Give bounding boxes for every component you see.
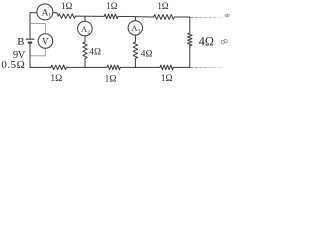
ammeter A1 bbox=[37, 4, 53, 20]
svg-text:1Ω: 1Ω bbox=[106, 1, 118, 11]
wire right shunt to bottom rail bbox=[189, 46, 191, 68]
wire R5 to bottom rail bbox=[134, 59, 136, 68]
wire left branch above battery bbox=[29, 13, 31, 39]
svg-text:1Ω: 1Ω bbox=[50, 73, 62, 83]
svg-text:1Ω: 1Ω bbox=[61, 1, 73, 11]
battery B positive plate bbox=[26, 38, 35, 40]
wire top-left corner to ammeter A1 bbox=[30, 12, 37, 14]
wire bottom rail segment 2 bbox=[67, 66, 108, 68]
wire A2 to 4ohm shunt R4 bbox=[84, 36, 86, 42]
resistor R8 1ohm (bottom) bbox=[160, 65, 173, 70]
wire node a down to ammeter A2 bbox=[84, 16, 86, 21]
resistor R9 4ohm (right shunt) bbox=[188, 33, 192, 46]
ammeter A3 bbox=[128, 21, 142, 35]
svg-text:0.5Ω: 0.5Ω bbox=[1, 59, 25, 71]
battery B negative plate bbox=[28, 42, 32, 44]
infinity symbol top right bbox=[225, 14, 229, 17]
wire bottom rail segment 3 bbox=[120, 66, 160, 68]
svg-text:1Ω: 1Ω bbox=[161, 73, 173, 83]
wire R3 to top-right corner bbox=[174, 16, 190, 18]
svg-text:1Ω: 1Ω bbox=[105, 73, 117, 83]
infinity symbol mid right bbox=[221, 39, 228, 44]
wire node b down to ammeter A3 bbox=[134, 17, 136, 21]
svg-text:4Ω: 4Ω bbox=[89, 47, 101, 57]
resistor R2 1ohm (top) bbox=[104, 14, 118, 19]
wire left branch below battery bbox=[29, 43, 31, 67]
svg-text:4Ω: 4Ω bbox=[199, 34, 214, 48]
wire R1 to R2 (node a at x=85) bbox=[76, 15, 105, 17]
svg-text:B: B bbox=[17, 36, 24, 48]
voltmeter V bbox=[38, 34, 53, 49]
resistor R3 1ohm (top) bbox=[154, 15, 175, 20]
wire A1 to resistor R1 with jog bbox=[53, 13, 58, 16]
svg-text:1Ω: 1Ω bbox=[157, 1, 169, 11]
resistor R4 4ohm (shunt 1) bbox=[83, 42, 87, 59]
ammeter A2 bbox=[78, 21, 93, 36]
svg-text:V: V bbox=[42, 36, 49, 46]
wire right branch down from top rail bbox=[189, 17, 191, 33]
resistor R5 4ohm (shunt 2) bbox=[133, 42, 137, 59]
voltmeter branch wires bbox=[30, 24, 45, 56]
resistor R6 1ohm (bottom) bbox=[51, 65, 67, 70]
wire bottom rail to right corner bbox=[173, 66, 190, 68]
infinite ladder continuation bottom bbox=[190, 66, 224, 68]
wire R2 to R3 (node b at x=135.4) bbox=[118, 15, 154, 18]
svg-text:4Ω: 4Ω bbox=[141, 49, 153, 59]
wire A3 to 4ohm shunt R5 bbox=[134, 35, 136, 42]
wire bottom rail left segment bbox=[30, 66, 51, 68]
resistor R1 1ohm (top) bbox=[58, 14, 75, 19]
resistor R7 1ohm (bottom) bbox=[107, 65, 120, 70]
wire R4 to bottom rail bbox=[84, 59, 86, 68]
